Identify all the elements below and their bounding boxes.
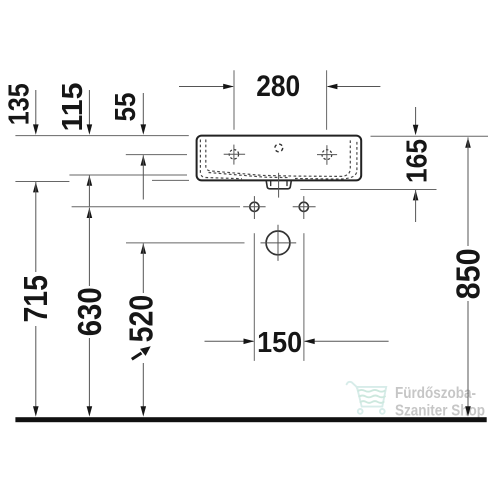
- svg-text:280: 280: [256, 70, 300, 103]
- dim 55 upper shaft with down arrow: [142, 93, 144, 127]
- drain inner wall left: [270, 181, 272, 186]
- siphon cross: [261, 225, 297, 261]
- dim 630 upper arrow (up) at mounting line: [87, 208, 93, 218]
- svg-text:Fürdőszoba-: Fürdőszoba-: [395, 385, 476, 402]
- dimension label 55 (rotated): [110, 93, 142, 122]
- right tap hole dashed circle: [322, 150, 332, 160]
- dimension label 520 (rotated): [122, 295, 159, 343]
- dimension label 165 (rotated): [402, 139, 434, 183]
- dim 135 lower arrow (up) at 181.5: [33, 182, 39, 192]
- reference line: basin top, right side: [371, 135, 489, 137]
- left mounting hole: [250, 202, 259, 211]
- watermark cart icon: [347, 382, 387, 414]
- basin interior hidden edge (outer dashed loop): [200, 140, 357, 180]
- right mounting hole: [299, 202, 308, 211]
- dim 150 line left part: [205, 340, 254, 342]
- dim 135 upper shaft with down arrow: [35, 90, 37, 127]
- dim 850 shaft lower with ground arrow: [467, 301, 469, 408]
- dim 165 lower arrow (up) and shaft: [413, 190, 419, 200]
- dim 150 extension line left: [253, 233, 255, 361]
- left tap hole dashed circle: [229, 150, 238, 159]
- basin interior hidden edge (inner dashed loop): [206, 140, 350, 177]
- ground / floor line: [15, 417, 486, 422]
- dim 165 upper shaft with down arrow: [415, 107, 417, 127]
- right mounting hole cross: [293, 196, 316, 219]
- svg-text:Szaniter Shop: Szaniter Shop: [395, 402, 485, 419]
- reference line: 115 level: [69, 174, 187, 176]
- drain direction arrow (north-east): [132, 346, 151, 359]
- dimension label 850 (rotated): [449, 248, 486, 299]
- svg-text:850: 850: [449, 248, 486, 299]
- reference line: 55 level: [126, 154, 187, 156]
- left tap hole cross: [224, 145, 245, 165]
- dimension 280 arrow right: [327, 84, 338, 90]
- svg-text:630: 630: [71, 287, 108, 336]
- reference line: mounting holes level: [72, 206, 240, 208]
- dim 150 line right part: [305, 340, 389, 342]
- svg-text:55: 55: [110, 93, 142, 122]
- dim 520 shaft upper: [142, 243, 144, 293]
- dim 115 upper shaft with down arrow: [88, 90, 90, 127]
- dimension 280 line right part: [328, 86, 381, 88]
- reference line: 135 level: [15, 181, 69, 183]
- dim 115 arrow shaft: [88, 175, 90, 206]
- dim 850 shaft upper: [467, 137, 469, 246]
- svg-text:715: 715: [17, 275, 54, 323]
- dimension label 115 (rotated): [57, 83, 89, 132]
- svg-text:520: 520: [122, 295, 159, 343]
- dimension label 715 (rotated): [17, 275, 54, 323]
- dim 55 arrow shaft: [142, 155, 144, 199]
- dim 715 shaft upper: [35, 182, 37, 272]
- reference line: drain bottom right (165 lower): [300, 189, 436, 191]
- svg-text:150: 150: [257, 327, 302, 359]
- dim 630 shaft lower with ground arrow: [88, 338, 90, 408]
- drain centerline: [278, 173, 280, 198]
- washbasin outer outline: [197, 136, 362, 181]
- dimension 280 line left part: [179, 86, 233, 88]
- drain fitting box under basin: [266, 181, 291, 189]
- reference line: basin bottom extension: [152, 179, 189, 181]
- dim 850 upper arrow (up) at basin top line: [465, 137, 471, 147]
- svg-text:165: 165: [402, 139, 434, 183]
- dimension label 135 (rotated): [3, 83, 35, 125]
- overflow hole (dashed circle): [275, 144, 283, 152]
- dim 520 shaft lower with ground arrow: [142, 363, 144, 408]
- dim 150 extension line right: [303, 233, 305, 361]
- basin floor hidden edge (middle dashed diagonal): [209, 173, 291, 178]
- dim 715 shaft lower with ground arrow: [35, 326, 37, 408]
- svg-text:135: 135: [3, 83, 35, 125]
- dimension 280 extension line left: [233, 70, 235, 130]
- dim 630 shaft upper: [88, 208, 90, 286]
- dim 520 upper arrow (up) at siphon line: [141, 243, 147, 253]
- dimension 280 arrow left: [223, 84, 234, 90]
- dim 55 lower arrow (up) at 154.6: [141, 155, 147, 165]
- dim 150 arrow left: [244, 339, 255, 345]
- drain inner wall right: [286, 181, 288, 186]
- reference line: siphon level: [126, 242, 245, 244]
- dimension label 630 (rotated): [71, 287, 108, 336]
- svg-text:115: 115: [57, 83, 89, 132]
- reference line: basin top, left side: [15, 135, 188, 137]
- dim 150 arrow right: [304, 339, 315, 345]
- right tap hole cross: [317, 145, 337, 165]
- dimension 280 extension line right: [326, 70, 328, 130]
- left mounting hole cross: [243, 196, 265, 219]
- siphon drain circle: [266, 231, 290, 255]
- dim 115 lower arrow (up) at 175: [87, 175, 93, 185]
